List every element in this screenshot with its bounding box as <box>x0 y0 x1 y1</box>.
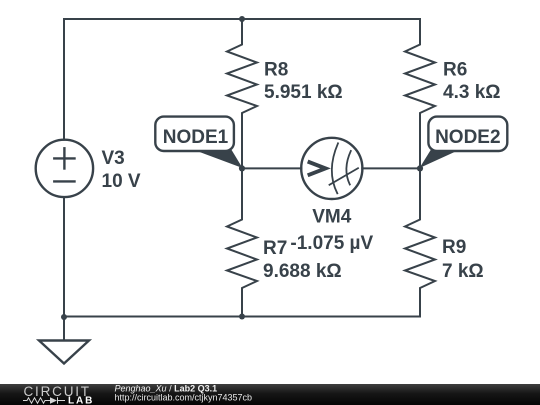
svg-text:10 V: 10 V <box>102 171 141 192</box>
wire left column top <box>63 19 65 140</box>
wire meter to node2 <box>362 167 420 169</box>
resistor R8 <box>227 19 257 168</box>
wire bottom horizontal <box>64 316 420 318</box>
label R8 value <box>264 60 343 104</box>
voltmeter VM4 <box>301 138 362 199</box>
node NODE1 label <box>155 117 242 168</box>
svg-text:V3: V3 <box>102 148 125 169</box>
label R6 value <box>443 60 501 104</box>
label V3 value <box>102 148 141 192</box>
label R9 value <box>442 237 484 282</box>
ground <box>39 341 89 364</box>
svg-text:http://circuitlab.com/ctjkyn74: http://circuitlab.com/ctjkyn74357cb <box>115 393 253 403</box>
svg-text:R7: R7 <box>263 238 287 259</box>
node ground junction <box>61 314 67 320</box>
label R7 value <box>263 238 342 282</box>
wire node1 to meter <box>242 167 301 169</box>
svg-text:-1.075 µV: -1.075 µV <box>290 233 373 254</box>
svg-text:R8: R8 <box>264 60 288 81</box>
svg-text:4.3 kΩ: 4.3 kΩ <box>443 82 501 103</box>
voltage source V3 <box>36 140 93 197</box>
resistor R7 <box>227 168 257 316</box>
node A junction top <box>239 16 245 22</box>
node NODE1 junction <box>239 165 245 171</box>
node bottom junction <box>239 314 245 320</box>
resistor R6 <box>405 19 435 168</box>
wire top horizontal <box>64 18 420 20</box>
svg-text:9.688 kΩ: 9.688 kΩ <box>263 261 342 282</box>
svg-text:VM4: VM4 <box>312 207 352 228</box>
label VM4 value <box>290 207 373 254</box>
svg-text:NODE2: NODE2 <box>435 127 500 148</box>
node NODE2 label <box>420 117 508 168</box>
wire left column bottom <box>63 197 65 317</box>
svg-text:R9: R9 <box>442 237 466 258</box>
wire ground stub <box>63 317 65 341</box>
svg-text:R6: R6 <box>443 60 467 81</box>
resistor R9 <box>405 168 435 316</box>
logo resistor-diode squiggle <box>23 397 65 403</box>
svg-text:7 kΩ: 7 kΩ <box>442 261 484 282</box>
svg-text:NODE1: NODE1 <box>163 127 229 148</box>
footer bar <box>0 384 540 405</box>
svg-text:LAB: LAB <box>68 396 94 405</box>
svg-text:5.951 kΩ: 5.951 kΩ <box>264 82 343 103</box>
node NODE2 junction <box>417 165 423 171</box>
